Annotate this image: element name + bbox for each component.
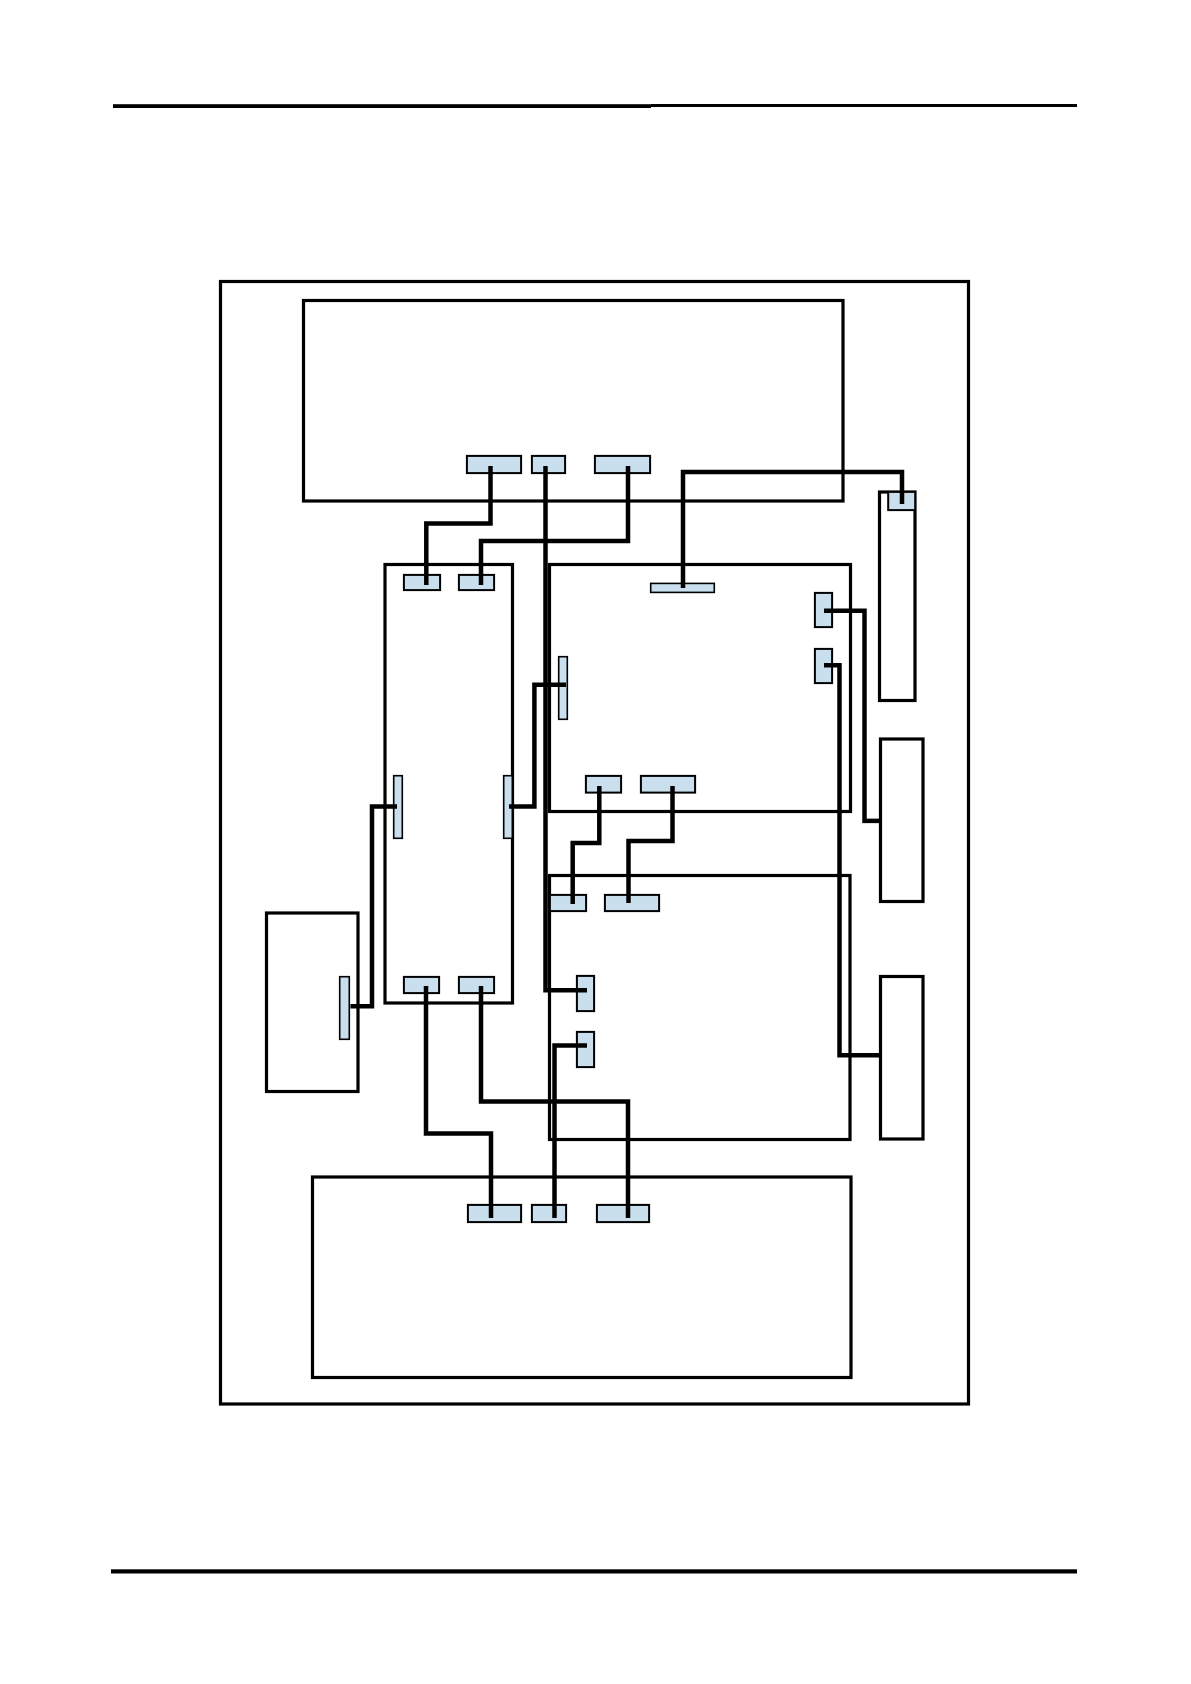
port S1 small box xyxy=(340,977,350,1040)
wire M1 to R1 xyxy=(683,472,902,588)
block U7 right column top xyxy=(880,492,916,701)
wire V2 to B2 xyxy=(555,1046,588,1219)
block U8 right column middle xyxy=(881,739,924,902)
wire L6 to M2 xyxy=(509,685,566,807)
wire L5 to S1 xyxy=(351,807,398,1007)
port L4 bottom right xyxy=(459,977,494,993)
wire T1 to L1 xyxy=(426,466,490,585)
port L2 xyxy=(459,575,494,590)
port B1 xyxy=(468,1205,521,1222)
wire T2 to V1 xyxy=(546,466,588,990)
header rule right xyxy=(651,104,1077,107)
wire M5 to N1 xyxy=(573,786,600,904)
port M4 right B xyxy=(815,649,832,683)
header rule left xyxy=(113,104,651,108)
port T3 xyxy=(595,456,650,473)
wire M4 to U9 xyxy=(824,665,879,1055)
port M6 bottom 2 xyxy=(641,776,695,793)
block U9 right column bottom xyxy=(881,977,924,1140)
wire M6 to N2 xyxy=(629,786,673,903)
footer rule xyxy=(111,1569,1077,1573)
port T2 xyxy=(532,456,565,473)
block U3 small left xyxy=(267,913,359,1092)
port N2 lower box 2 xyxy=(605,895,659,911)
wire L3 to B1 xyxy=(426,986,491,1218)
port M2 left side xyxy=(559,657,568,720)
port L5 left side xyxy=(394,776,403,839)
block U1 top xyxy=(304,301,844,502)
outer frame xyxy=(221,282,969,1405)
block U4 middle right xyxy=(550,565,851,812)
port B2 xyxy=(532,1205,566,1222)
port L6 right side xyxy=(504,776,513,839)
port M1 top xyxy=(651,583,715,592)
wire M3 to U8 xyxy=(824,611,879,821)
block U6 bottom xyxy=(313,1177,852,1378)
port N1 lower box 1 xyxy=(550,895,586,911)
port B3 xyxy=(597,1205,649,1222)
port M3 right A xyxy=(815,593,832,627)
port L1 xyxy=(404,575,440,590)
wire L4 to B3 xyxy=(481,986,628,1218)
port V1 xyxy=(577,976,594,1011)
port V2 xyxy=(577,1032,594,1067)
port R1 top of U7 xyxy=(888,492,915,510)
block U5 lower right xyxy=(550,876,851,1140)
port M5 bottom 1 xyxy=(586,776,621,793)
port T1 xyxy=(467,456,521,473)
port L3 bottom left xyxy=(404,977,439,993)
block U2 tall left xyxy=(385,565,513,1004)
wire T3 to L2 xyxy=(481,466,628,585)
